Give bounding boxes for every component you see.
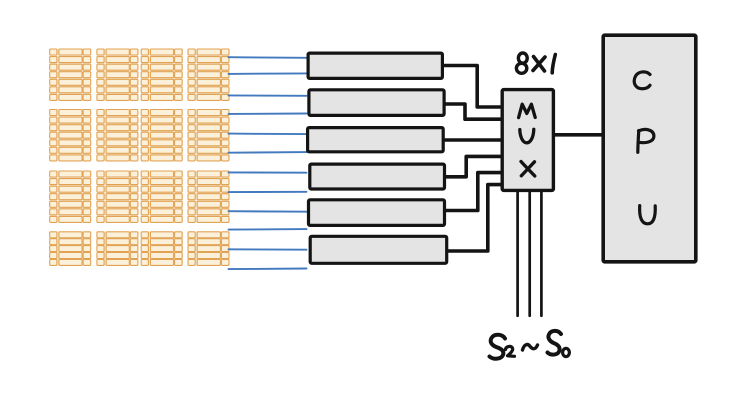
CPU letter P bbox=[638, 129, 654, 152]
memory block row2 col2 bbox=[97, 109, 139, 161]
wire: mux output to CPU bbox=[554, 133, 609, 137]
wire: register 2 to MUX input bbox=[445, 104, 501, 119]
memory block row2 col3 bbox=[141, 109, 183, 161]
memory block row1 col3 bbox=[141, 49, 183, 101]
wire: blue bit line 9 from array to registers bbox=[229, 210, 307, 213]
register/buffer box 4 bbox=[310, 164, 445, 189]
wire: blue bit line 8 from array to registers bbox=[229, 191, 307, 193]
memory block row3 col3 bbox=[141, 171, 183, 223]
wire: blue bit line 2 from array to registers bbox=[229, 72, 307, 75]
label 8x1: digit 1 bbox=[552, 55, 555, 73]
memory block row3 col2 bbox=[97, 171, 139, 223]
label S2: letter S bbox=[490, 335, 506, 359]
memory block row1 col4 bbox=[188, 49, 230, 101]
wire: blue bit line 1 from array to registers bbox=[229, 56, 307, 59]
wire: mux select line S2 bbox=[516, 192, 519, 316]
label S0: subscript 0 bbox=[563, 348, 570, 356]
wire: register 3 to MUX input bbox=[444, 138, 501, 142]
memory block row4 col3 bbox=[141, 232, 183, 266]
mux letter X bbox=[521, 162, 535, 177]
register/buffer box 1 bbox=[308, 53, 442, 78]
memory block row4 col4 bbox=[188, 232, 230, 266]
memory block row4 col2 bbox=[97, 232, 139, 266]
label 8x1: multiplication sign bbox=[533, 57, 545, 72]
label S2: subscript 2 bbox=[506, 346, 515, 356]
memory block row3 col4 bbox=[188, 171, 230, 223]
wire: blue bit line 12 from array to registers bbox=[229, 268, 307, 271]
label: tilde between S2 and S0 bbox=[523, 345, 538, 350]
register/buffer box 2 bbox=[309, 90, 444, 116]
wire: blue bit line 6 from array to registers bbox=[229, 151, 307, 154]
mux letter U bbox=[520, 129, 534, 143]
register/buffer box 6 bbox=[310, 236, 447, 263]
wire: register 5 to MUX input bbox=[446, 173, 501, 211]
memory block row3 col1 bbox=[49, 171, 91, 223]
memory block row2 col4 bbox=[188, 109, 230, 161]
wire: register 6 to MUX input bbox=[448, 185, 501, 251]
memory block row1 col1 bbox=[49, 49, 91, 101]
wire: blue bit line 3 from array to registers bbox=[229, 94, 307, 96]
memory block row4 col1 bbox=[49, 232, 91, 266]
CPU letter U bbox=[640, 206, 656, 224]
register/buffer box 5 bbox=[309, 200, 445, 226]
label S0: letter S bbox=[548, 331, 562, 355]
memory block row2 col1 bbox=[49, 109, 91, 161]
mux letter M bbox=[519, 104, 536, 117]
wire: blue bit line 4 from array to registers bbox=[229, 113, 307, 115]
CPU box bbox=[603, 35, 696, 262]
wire: mux select line S1 bbox=[528, 192, 531, 316]
mux U1 (8x1 multiplexer) box bbox=[502, 90, 553, 191]
memory block row1 col2 bbox=[97, 49, 139, 101]
wire: blue bit line 5 from array to registers bbox=[229, 133, 307, 136]
wire: blue bit line 11 from array to registers bbox=[229, 248, 307, 250]
CPU letter C bbox=[634, 72, 650, 89]
register/buffer box 3 bbox=[308, 128, 444, 152]
label 8x1 above mux: digit 8 bbox=[516, 53, 527, 73]
wire: blue bit line 10 from array to registers bbox=[229, 228, 307, 231]
wire: blue bit line 7 from array to registers bbox=[229, 171, 307, 173]
wire: register 1 to MUX input bbox=[444, 66, 502, 108]
wire: register 4 to MUX input bbox=[446, 156, 501, 176]
wire: mux select line S0 bbox=[540, 192, 543, 316]
